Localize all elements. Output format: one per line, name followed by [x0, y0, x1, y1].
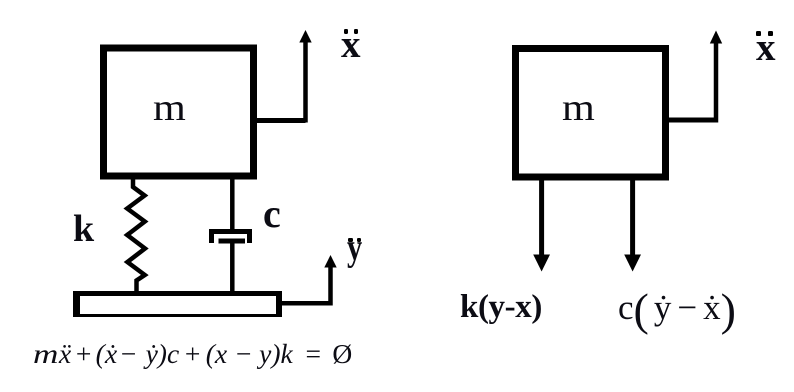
acceleration arrow x-ddot (left) — [303, 40, 308, 123]
damper c cylinder cap — [212, 232, 250, 244]
damper c top rod — [230, 179, 235, 232]
label x-ddot (right) — [756, 28, 776, 67]
label y-ddot — [347, 229, 366, 267]
label m (right mass) — [562, 89, 592, 127]
wire from base to y-ddot arrow — [279, 301, 333, 306]
base acceleration arrow y-ddot — [328, 266, 333, 306]
label c — [263, 194, 281, 234]
damper c piston — [219, 239, 246, 244]
wire from left mass to x-ddot arrow — [255, 118, 306, 123]
spring force arrow k(y-x) down — [539, 180, 544, 256]
damper c bottom rod — [230, 243, 235, 291]
label x-ddot (left) — [341, 25, 361, 64]
label m (left mass) — [153, 89, 183, 127]
wire from right mass to x-ddot arrow — [667, 118, 716, 123]
base / ground platform — [73, 291, 282, 317]
spring k — [127, 179, 145, 291]
label k(y-x) — [460, 287, 542, 327]
mass block m (left) — [104, 48, 254, 176]
damper force arrow c(ydot-xdot) down — [630, 180, 635, 256]
equation m x-ddot + (x-dot - y-dot)c + (x - y)k = 0 — [33, 337, 352, 371]
label k — [73, 210, 94, 248]
label c(ydot-xdot) — [618, 288, 736, 330]
mass block m (right) — [516, 49, 666, 178]
acceleration arrow x-ddot (right) — [714, 41, 719, 123]
